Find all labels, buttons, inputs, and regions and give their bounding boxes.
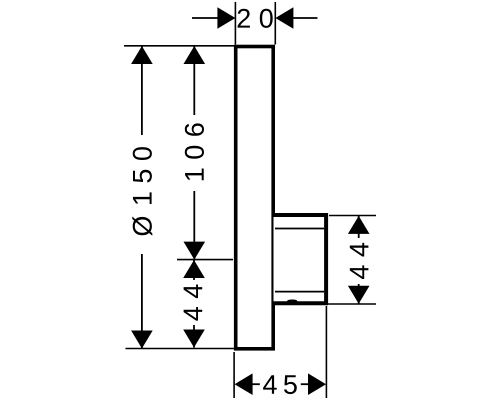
arrow 45 left (left-pointing) [235,373,253,395]
dimension 20 top: right tail [292,17,318,19]
arrow 44 right top (up) [348,216,370,234]
arrow D150 top (up) [131,46,153,64]
extension line mid-left (106/44 boundary) [177,259,233,261]
extension line bottom-left (plate bottom) [126,348,235,350]
dimension line 45 [252,383,260,385]
label 20 [238,9,273,28]
label 44 right [350,243,369,279]
arrow 44 mid bottom (down) [183,330,205,348]
arrow 106 bottom (down) [184,242,206,260]
extension line top-left (plate top) [124,45,234,47]
dimension line 44 mid [193,260,195,280]
arrow 44 mid top (up) [183,260,205,278]
extension line right-top (valve body top) [329,215,376,217]
arrow 45 right (right-pointing) [308,373,326,395]
label D150 [132,147,152,236]
arrow 20 right (left-pointing) [275,7,293,29]
dimension line D150 [141,46,143,135]
label 45 [263,375,297,394]
dimension line 106 [193,46,195,115]
extension line 45 right [325,306,327,398]
valve body inner line top [275,228,324,230]
extension line right-bottom (valve body bottom) [328,303,377,305]
label 106 [185,123,204,180]
label 44 mid [184,285,203,321]
dimension 20 top: left tail [192,17,219,19]
extension line 20 right [274,2,276,45]
arrow 44 right bottom (down) [348,286,370,304]
extension line 20 left [234,2,236,45]
arrow 20 left (right-pointing) [217,7,235,29]
clip bump on valve body bottom edge [286,300,299,304]
arrow 106 top (up) [184,46,206,64]
valve body inner line bottom [275,291,324,293]
arrow D150 bottom (down) [131,331,153,349]
valve body outline (protrusion right) [274,215,327,303]
extension line 45 left [233,352,235,398]
dimension line 44 right [358,216,360,238]
plate outline (side view, 20mm thick escutcheon) [236,47,274,349]
